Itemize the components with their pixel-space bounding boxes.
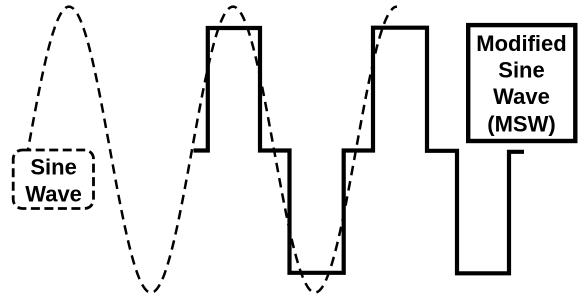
- svg-text:Modified: Modified: [476, 31, 566, 56]
- svg-text:Wave: Wave: [493, 84, 550, 109]
- svg-text:Sine: Sine: [498, 58, 544, 83]
- svg-text:Wave: Wave: [25, 182, 82, 207]
- svg-text:Sine: Sine: [30, 155, 76, 180]
- svg-text:(MSW): (MSW): [487, 112, 555, 137]
